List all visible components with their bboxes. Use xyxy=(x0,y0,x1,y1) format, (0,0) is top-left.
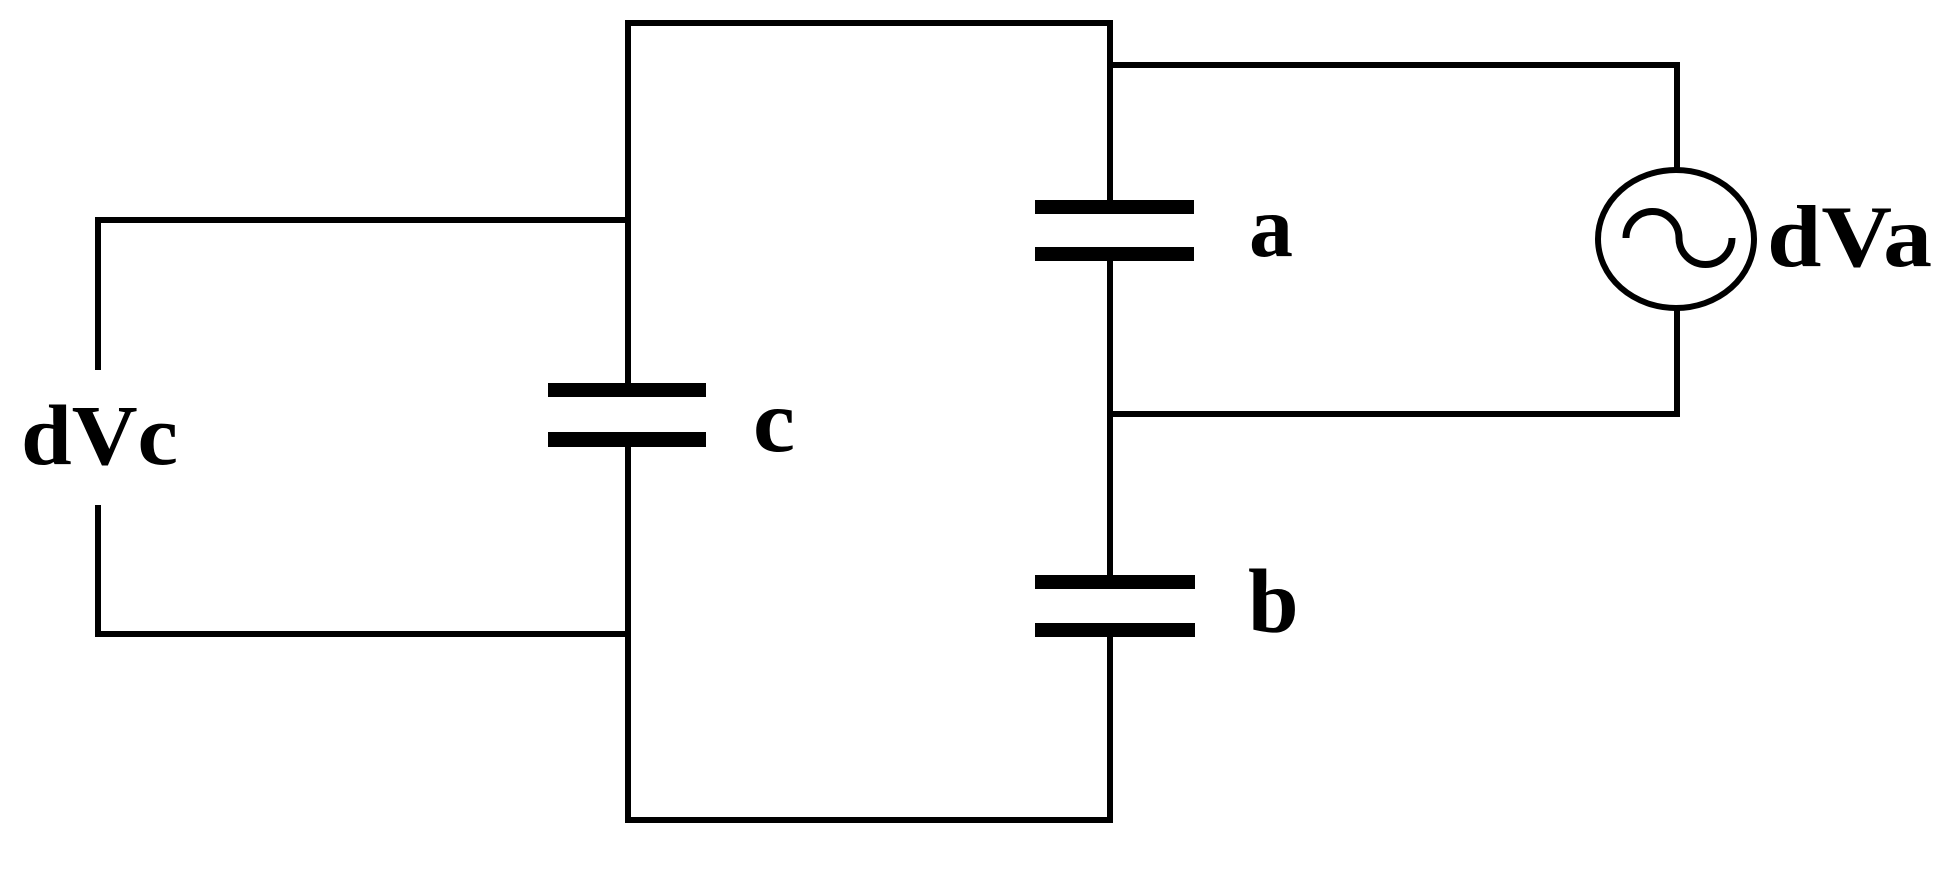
capacitor a top plate xyxy=(1035,200,1194,214)
capacitor a bottom plate xyxy=(1035,247,1194,261)
svg-text:dVa: dVa xyxy=(1767,189,1932,286)
capacitor c bottom plate xyxy=(548,432,706,447)
wire: center rectangle bottom edge xyxy=(625,817,1113,823)
wire: left loop top horizontal (dVc to rectangle) xyxy=(98,217,628,223)
svg-text:dVc: dVc xyxy=(21,387,178,483)
svg-text:b: b xyxy=(1248,551,1299,652)
wire: right loop top horizontal (rectangle to AC source) xyxy=(1110,62,1680,68)
capacitor b bottom plate xyxy=(1035,623,1195,637)
wire: AC source bottom lead xyxy=(1674,308,1680,417)
wire: left loop left vertical upper stub (above dVc label) xyxy=(95,217,101,370)
wire: left loop left vertical lower stub (below dVc label) xyxy=(95,505,101,637)
wire: right loop bottom horizontal (AC source back to node between a and b) xyxy=(1110,411,1680,417)
AC source dVa sine wave xyxy=(1626,212,1732,265)
wire: center rectangle left edge lower segment (below capacitor c) xyxy=(625,446,631,823)
capacitor c top plate xyxy=(548,383,706,397)
svg-text:a: a xyxy=(1249,179,1293,276)
AC source dVa circle xyxy=(1598,170,1754,308)
wire: center rectangle right edge upper segment (above capacitor a) xyxy=(1107,20,1113,203)
wire: center rectangle right edge lower segment (below capacitor b) xyxy=(1107,635,1113,823)
svg-text:c: c xyxy=(753,373,795,471)
capacitor b top plate xyxy=(1035,575,1195,589)
wire: left loop bottom horizontal xyxy=(98,631,628,637)
wire: center rectangle top edge xyxy=(625,20,1113,26)
wire: AC source top lead xyxy=(1674,62,1680,170)
wire: center rectangle left edge upper segment (above capacitor c) xyxy=(625,20,631,385)
wire: center rectangle right edge middle segment (between capacitor a and capacitor b) xyxy=(1107,259,1113,577)
